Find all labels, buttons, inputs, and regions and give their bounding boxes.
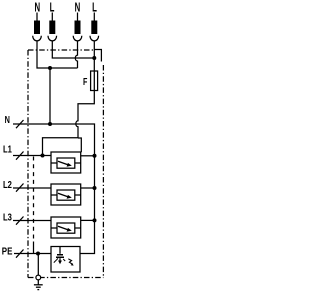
wire lead terminal 1 bbox=[36, 13, 38, 22]
wire arrester 3 output to N bus bbox=[81, 219, 95, 221]
surge arrester box 1 (L1) bbox=[51, 152, 81, 173]
wire N bus drop to N line bbox=[49, 68, 51, 124]
junction N bus dot bbox=[48, 66, 52, 70]
ground symbol bbox=[34, 284, 43, 286]
wire through fuse and jumper to L feed column bbox=[76, 71, 94, 138]
wire top border bbox=[28, 49, 94, 51]
svg-text:PE: PE bbox=[2, 246, 13, 257]
arrester 3 inner leads bbox=[51, 227, 81, 229]
break slash L2 wire bbox=[16, 184, 24, 192]
wire lead terminal 4 bbox=[93, 13, 95, 22]
wire L dot to fuse bbox=[93, 58, 95, 71]
wire arrester 1 output to N bus bbox=[81, 155, 95, 157]
wire PE line bbox=[14, 253, 51, 255]
wire left border bbox=[27, 50, 29, 278]
fuse F body bbox=[91, 71, 98, 91]
break slash L1 wire bbox=[16, 152, 24, 160]
break slash PE wire bbox=[16, 250, 24, 258]
wire L2 line bbox=[13, 187, 51, 189]
wire L2 stem bbox=[93, 41, 95, 58]
wire N line with hop over L feed column bbox=[13, 124, 95, 254]
terminal block 4 bbox=[91, 21, 97, 35]
junction dot arrester 1 bbox=[93, 154, 97, 158]
wire N2 stem with hop over L wire bbox=[75, 41, 77, 68]
spark gap lower lead with arrow bbox=[59, 258, 61, 260]
spark gap upper lead bbox=[59, 247, 61, 254]
wire remote monitoring dashed link bbox=[33, 157, 35, 242]
wire N1 stem to N bus bbox=[37, 41, 78, 68]
svg-text:L1: L1 bbox=[3, 144, 12, 155]
lightning flash symbol bbox=[68, 259, 72, 264]
wire L feed to L1 line bbox=[43, 138, 79, 156]
device boundary dashed border bbox=[28, 50, 103, 278]
wire disconnect nub to arrester 1 bbox=[78, 138, 81, 152]
wire PE drop to earth terminal bbox=[37, 254, 39, 276]
terminal block 2 bbox=[49, 21, 55, 35]
break slash L3 wire bbox=[16, 217, 24, 225]
wire lead terminal 2 bbox=[51, 13, 53, 22]
wire L1 stem across to L2 stem bbox=[52, 41, 94, 58]
wire earth stem bbox=[37, 280, 39, 285]
surge arrester box 3 (L3) bbox=[51, 217, 81, 238]
wire bottom border bbox=[28, 277, 103, 279]
arrester 3 inner element bbox=[57, 223, 75, 233]
wire L1 line bbox=[13, 155, 51, 157]
junction L1 feed dot bbox=[41, 154, 45, 158]
spark gap tick right bbox=[63, 259, 65, 261]
spark gap electrode bars bbox=[56, 255, 64, 258]
svg-text:N: N bbox=[5, 114, 10, 125]
wire L3 line bbox=[13, 220, 51, 222]
terminal block 3 bbox=[75, 21, 81, 35]
junction L dot bbox=[92, 56, 96, 60]
N-PE spark gap box bbox=[51, 247, 80, 273]
clamp contact 3 bbox=[73, 36, 82, 41]
spark gap trigger arrow left bbox=[54, 259, 57, 262]
arrester 3 arrow symbol bbox=[58, 226, 68, 229]
wire right border bbox=[102, 65, 104, 278]
break slash N wire bbox=[16, 120, 24, 128]
junction PE dot bbox=[36, 252, 40, 256]
clamp contact 1 bbox=[33, 36, 42, 41]
arrester 1 arrow symbol bbox=[58, 161, 68, 164]
surge arrester box 2 (L2) bbox=[51, 184, 81, 205]
wire arrester 2 output to N bus bbox=[81, 187, 95, 189]
junction N line dot bbox=[48, 122, 52, 126]
arrester 2 arrow symbol bbox=[58, 193, 68, 196]
clamp contact 2 bbox=[48, 36, 57, 41]
arrester 1 inner element bbox=[57, 158, 75, 168]
clamp contact 4 bbox=[90, 36, 99, 41]
arrester 2 inner leads bbox=[51, 194, 81, 196]
svg-text:L2: L2 bbox=[3, 179, 12, 190]
arrester 1 inner leads bbox=[51, 162, 81, 164]
earth terminal circle bbox=[36, 275, 41, 280]
terminal block 1 bbox=[34, 21, 40, 35]
svg-text:L3: L3 bbox=[3, 211, 12, 222]
junction dot arrester 2 bbox=[93, 186, 97, 190]
junction dot arrester 3 bbox=[93, 218, 97, 222]
wire top-right stub bbox=[95, 50, 102, 62]
arrester 2 inner element bbox=[57, 190, 75, 200]
svg-text:F: F bbox=[83, 76, 88, 88]
wire lead terminal 3 bbox=[77, 13, 79, 22]
